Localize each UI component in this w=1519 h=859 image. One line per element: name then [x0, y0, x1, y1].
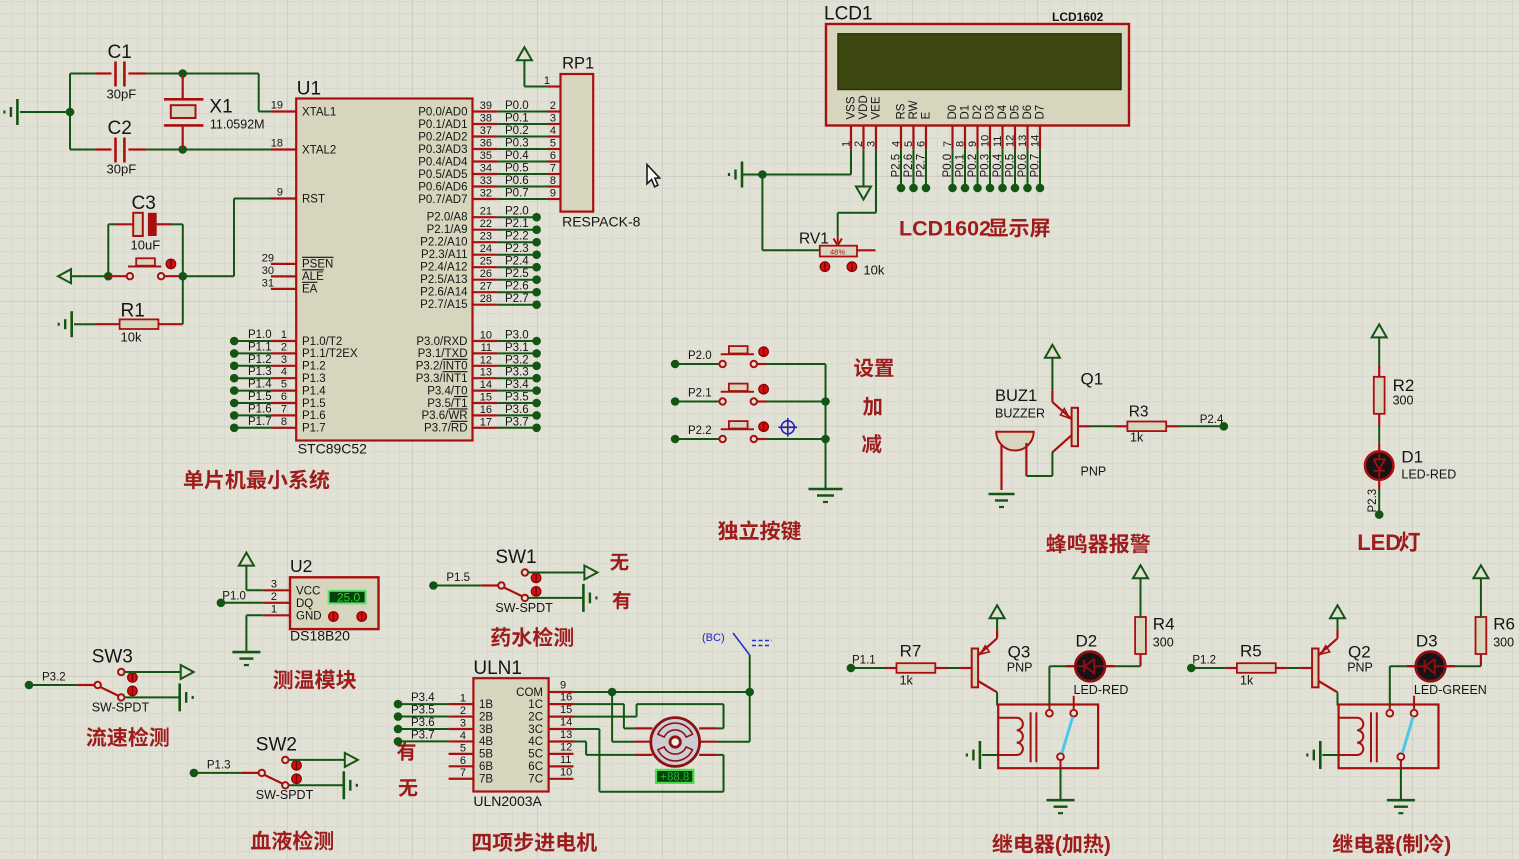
svg-text:C3: C3	[132, 193, 156, 214]
wire P1.0	[234, 329, 271, 341]
svg-text:D3: D3	[1416, 632, 1438, 651]
wire P1.5	[234, 391, 271, 403]
pin stub P3.4 (pin 14)	[473, 379, 498, 391]
svg-text:P1.3: P1.3	[248, 366, 272, 378]
wire P1.3	[234, 366, 271, 378]
svg-text:P2.0/A8: P2.0/A8	[427, 212, 468, 224]
svg-text:R7: R7	[900, 642, 922, 661]
svg-text:38: 38	[480, 113, 492, 125]
svg-text:6: 6	[281, 391, 287, 403]
node P3.4	[394, 700, 403, 709]
U1 left pin names	[302, 106, 358, 434]
svg-text:P1.4: P1.4	[302, 385, 326, 397]
switch SW3 SW-SPDT	[92, 647, 150, 715]
svg-text:D7: D7	[1035, 105, 1047, 120]
pin stub ULN 2B	[449, 705, 474, 717]
svg-text:16: 16	[480, 404, 492, 416]
pin stub P1.2 (pin 3)	[271, 354, 296, 366]
svg-text:4: 4	[281, 366, 287, 378]
svg-text:P3.6: P3.6	[505, 404, 529, 416]
node P3.5	[532, 399, 541, 408]
pin stub P3.3 (pin 13)	[473, 367, 498, 379]
svg-text:D6: D6	[1022, 105, 1034, 120]
svg-text:17: 17	[480, 416, 492, 428]
resistor R1 10k	[95, 301, 183, 345]
wire P2.1 to button	[675, 388, 722, 402]
node reset-right junction	[179, 272, 188, 281]
pin stub P1.3 (pin 4)	[271, 366, 296, 378]
pin stub P3.5 (pin 15)	[473, 392, 498, 404]
label liquid detect	[491, 627, 573, 647]
svg-text:10: 10	[560, 766, 572, 778]
svg-text:P1.0: P1.0	[222, 591, 246, 603]
wire COM up to annotation	[749, 655, 751, 692]
node P3.3	[532, 374, 541, 383]
annotation blue (BC)	[702, 632, 772, 655]
node P2.4	[1220, 422, 1229, 431]
svg-text:SW1: SW1	[495, 547, 536, 568]
svg-text:R1: R1	[121, 301, 145, 322]
pin stub ULN 1B	[449, 693, 474, 705]
svg-text:P2.0: P2.0	[505, 206, 529, 218]
ground (relay coil cool)	[1307, 741, 1338, 769]
svg-text:6B: 6B	[479, 761, 493, 773]
svg-text:32: 32	[480, 188, 492, 200]
svg-text:P2.4: P2.4	[505, 256, 529, 268]
svg-text:P2.4/A12: P2.4/A12	[420, 262, 467, 274]
resistor R5 1k	[1225, 642, 1287, 688]
svg-text:(BC): (BC)	[702, 632, 725, 644]
svg-text:2: 2	[271, 591, 277, 603]
svg-text:BUZ1: BUZ1	[995, 387, 1037, 405]
wire U2 DQ (P1.0)	[221, 591, 263, 603]
node rail P2.2	[821, 435, 830, 444]
wire P3.5	[398, 705, 449, 717]
svg-text:1k: 1k	[900, 674, 914, 688]
svg-text:P3.4: P3.4	[411, 692, 435, 704]
svg-text:U2: U2	[290, 556, 312, 576]
pin stub P2.4 (pin 25)	[473, 256, 498, 268]
pin stub P1.5 (pin 6)	[271, 391, 296, 403]
svg-text:VSS: VSS	[846, 96, 858, 119]
svg-text:1: 1	[281, 329, 287, 341]
svg-text:PNP: PNP	[1347, 660, 1373, 674]
svg-text:8: 8	[955, 141, 967, 147]
pin stub P2.1 (pin 22)	[473, 218, 498, 230]
svg-text:RS: RS	[896, 103, 908, 119]
svg-text:300: 300	[1493, 635, 1514, 649]
power terminal (Q2)	[1330, 605, 1345, 630]
wire P3.5	[497, 392, 536, 404]
svg-text:RESPACK-8: RESPACK-8	[562, 214, 641, 230]
relay coil+contacts (heat)	[998, 696, 1098, 768]
LED D1 LED-RED	[1365, 448, 1456, 482]
svg-text:P1.7: P1.7	[302, 423, 326, 435]
wire P1.5 to SW1	[433, 572, 498, 586]
svg-text:2: 2	[281, 341, 287, 353]
svg-text:PSEN: PSEN	[302, 259, 333, 271]
svg-text:RST: RST	[302, 193, 325, 205]
svg-text:7C: 7C	[528, 774, 543, 786]
temperature sensor U2 DS18B20	[263, 556, 378, 644]
svg-text:P3.4/T0: P3.4/T0	[427, 385, 467, 397]
label buzzer alarm	[1046, 534, 1150, 554]
pin stub RP1 pin 6	[548, 150, 561, 162]
pin stub RP1 pin 3	[548, 113, 561, 125]
node P2.0	[532, 213, 541, 222]
svg-text:P3.6: P3.6	[411, 717, 435, 729]
svg-text:36: 36	[480, 138, 492, 150]
wire C2 to XTAL2 rail	[146, 149, 271, 151]
svg-text:10: 10	[980, 135, 992, 147]
node P3.2	[25, 681, 34, 690]
wire P1.1	[234, 341, 271, 353]
pin stub ULN 4B	[449, 730, 474, 742]
wire Q1 base to R3	[1078, 425, 1127, 427]
svg-text:XTAL1: XTAL1	[302, 106, 336, 118]
svg-text:6: 6	[916, 141, 928, 147]
svg-text:SW-SPDT: SW-SPDT	[256, 788, 314, 802]
svg-text:P1.1: P1.1	[852, 655, 876, 667]
svg-text:P1.2: P1.2	[248, 354, 272, 366]
svg-text:7: 7	[550, 163, 556, 175]
wire P3.1	[497, 342, 536, 354]
capacitor C2	[95, 118, 146, 177]
wire P1.3 to SW2	[194, 759, 259, 773]
svg-text:SW-SPDT: SW-SPDT	[495, 601, 553, 615]
svg-text:5: 5	[460, 742, 466, 754]
pin stub RP1 pin 5	[548, 138, 561, 150]
wire COM to motor right-middle	[717, 692, 750, 742]
wire P2.4	[497, 256, 536, 268]
svg-text:D5: D5	[1010, 105, 1022, 120]
label flow detect	[87, 727, 169, 747]
svg-text:P2.6: P2.6	[505, 281, 529, 293]
svg-text:300: 300	[1153, 635, 1174, 649]
wire P0.0	[497, 100, 548, 112]
label independent keys	[718, 520, 801, 540]
wire SW1 NC to terminal	[528, 572, 584, 574]
svg-text:5C: 5C	[528, 749, 543, 761]
cursor marker (blue crosshair)	[779, 418, 798, 437]
node osc-gnd junction	[66, 108, 75, 117]
wire U2 VCC	[246, 589, 263, 591]
wire P3.6	[398, 717, 449, 729]
LED D3 LED-GREEN	[1406, 632, 1486, 698]
label blood detect	[251, 830, 333, 850]
wire key common rail	[825, 364, 827, 489]
svg-text:1: 1	[544, 75, 550, 87]
wire R2 to D1	[1378, 414, 1380, 453]
svg-text:16: 16	[560, 692, 572, 704]
svg-text:26: 26	[480, 268, 492, 280]
wire SW2 NC to terminal	[289, 759, 345, 761]
wire D2 to R4	[1104, 654, 1141, 666]
svg-text:13: 13	[1017, 135, 1029, 147]
svg-text:2C: 2C	[528, 711, 543, 723]
wire 2C to motor right-top	[574, 704, 724, 728]
resistor R3 1k	[1127, 404, 1166, 445]
pin stub 29	[262, 253, 296, 265]
svg-text:P1.2: P1.2	[302, 361, 326, 373]
svg-text:Q3: Q3	[1008, 643, 1031, 662]
ground (SW2 bottom)	[344, 771, 357, 799]
node P2.3	[1375, 510, 1384, 519]
pin stub P0.3 (pin 36)	[473, 138, 498, 150]
svg-text:27: 27	[480, 281, 492, 293]
wire LCD VSS to ground	[762, 149, 851, 174]
svg-text:P1.3: P1.3	[207, 759, 231, 771]
svg-text:4C: 4C	[528, 736, 543, 748]
svg-text:7: 7	[281, 403, 287, 415]
svg-text:C1: C1	[108, 42, 132, 63]
pin stub P1.4 (pin 5)	[271, 379, 296, 391]
LCD LCD1 body	[824, 4, 1129, 126]
label none (SW1)	[610, 554, 628, 571]
svg-text:24: 24	[480, 243, 492, 255]
wire osc left rail	[70, 74, 95, 150]
svg-text:1: 1	[460, 693, 466, 705]
wire P3.2	[497, 354, 536, 366]
svg-text:P1.6: P1.6	[302, 410, 326, 422]
svg-text:VDD: VDD	[858, 95, 870, 119]
svg-text:LED-GREEN: LED-GREEN	[1414, 683, 1487, 697]
node P1.2	[1187, 664, 1196, 673]
node P1.3	[190, 769, 199, 778]
svg-text:7: 7	[942, 141, 954, 147]
terminal (reset row left)	[58, 269, 108, 283]
svg-text:): )	[1444, 834, 1451, 857]
resistor R7 1k	[885, 642, 947, 688]
power terminal (Q1)	[1045, 345, 1060, 391]
svg-text:29: 29	[262, 253, 274, 265]
svg-text:14: 14	[480, 379, 492, 391]
relay coil+contacts (cool)	[1339, 696, 1439, 768]
svg-text:P2.5/A13: P2.5/A13	[420, 274, 467, 286]
wire P2.7	[497, 293, 536, 305]
pin stub P1.6 (pin 7)	[271, 403, 296, 415]
svg-text:EA: EA	[302, 284, 318, 296]
label relay cool	[1333, 834, 1452, 857]
node P1.1	[230, 349, 239, 358]
svg-text:D4: D4	[997, 104, 1009, 119]
label none (ULN)	[399, 779, 418, 797]
pin stub P0.5 (pin 34)	[473, 163, 498, 175]
node P2.4	[532, 263, 541, 272]
ground (LCD VSS)	[729, 162, 762, 188]
wire relay common to ground (cool)	[1400, 768, 1402, 800]
svg-text:VEE: VEE	[871, 96, 883, 119]
wire RP1 pin1	[524, 75, 550, 87]
power terminal (Q3)	[990, 605, 1005, 630]
svg-text:D2: D2	[1076, 632, 1098, 651]
svg-text:18: 18	[271, 138, 283, 150]
svg-text:7B: 7B	[479, 774, 493, 786]
power terminal (R4)	[1133, 565, 1148, 617]
wire button 1 to rail	[757, 363, 826, 365]
node P2.1	[671, 397, 680, 406]
pin stub ULN 3B	[449, 717, 474, 729]
wire P1.6	[234, 403, 271, 415]
wire Q2 collector to relay	[1337, 692, 1339, 705]
wire P3.6	[497, 404, 536, 416]
svg-text:P1.4: P1.4	[248, 379, 272, 391]
svg-text:RW: RW	[908, 100, 920, 119]
svg-text:D1: D1	[960, 105, 972, 120]
pin stub P1.0 (pin 1)	[271, 329, 296, 341]
wire P0.6	[497, 175, 548, 187]
node P1.7	[230, 424, 239, 433]
svg-text:(: (	[1395, 834, 1402, 857]
node X1 bottom junction	[178, 145, 187, 154]
svg-text:11: 11	[481, 342, 492, 354]
node P2.2	[532, 238, 541, 247]
svg-text:D1: D1	[1401, 448, 1423, 467]
svg-text:4: 4	[891, 141, 903, 147]
svg-text:P3.2: P3.2	[505, 354, 529, 366]
wire P0.4	[497, 150, 548, 162]
svg-text:R5: R5	[1240, 642, 1262, 661]
LCD net labels	[891, 153, 1042, 177]
svg-text:3C: 3C	[528, 724, 543, 736]
label stepper motor	[473, 832, 597, 852]
pin stub ULN 6B	[449, 755, 474, 767]
svg-text:P2.3/A11: P2.3/A11	[421, 249, 467, 261]
svg-text:4B: 4B	[479, 736, 493, 748]
power terminal (R6)	[1473, 565, 1488, 617]
wire P3.7	[497, 416, 536, 428]
svg-text:7: 7	[460, 767, 466, 779]
label plus	[863, 397, 882, 416]
svg-text:P2.3: P2.3	[505, 243, 529, 255]
pushbutton P2.0	[719, 346, 768, 367]
label set	[854, 358, 893, 377]
pin stub P0.6 (pin 33)	[473, 175, 498, 187]
node reset-left junction	[104, 272, 113, 281]
IC ULN1 ULN2003A body	[473, 658, 548, 809]
pin stub P3.2 (pin 12)	[473, 354, 498, 366]
pin stub ULN pin 12	[549, 741, 574, 754]
node P2.6	[532, 288, 541, 297]
svg-text:D0: D0	[947, 105, 959, 120]
svg-text:P2.1: P2.1	[505, 218, 529, 230]
svg-text:31: 31	[262, 278, 274, 290]
svg-text:10k: 10k	[121, 330, 142, 345]
transistor Q1 PNP	[1052, 370, 1106, 479]
svg-text:P0.0/AD0: P0.0/AD0	[418, 106, 467, 118]
wire P1.7	[234, 416, 271, 428]
svg-text:11: 11	[560, 754, 571, 766]
svg-text:PNP: PNP	[1081, 465, 1107, 479]
svg-text:LED: LED	[1357, 530, 1401, 555]
LED D2 LED-RED	[1066, 632, 1128, 698]
svg-text:COM: COM	[516, 687, 543, 699]
U1 right pin names	[416, 106, 468, 434]
svg-text:P0.1: P0.1	[505, 113, 529, 125]
pin stub ULN pin 9	[549, 680, 574, 693]
wire P0.1	[497, 113, 548, 125]
node rail P2.1	[821, 397, 830, 406]
ground (U2)	[232, 652, 260, 665]
svg-text:ALE: ALE	[302, 271, 324, 283]
label minimal system	[184, 470, 329, 490]
pin stub ULN pin 13	[549, 729, 574, 742]
svg-text:10uF: 10uF	[131, 238, 161, 253]
node P3.2	[532, 362, 541, 371]
wire P2.1	[497, 218, 536, 230]
svg-text:300: 300	[1393, 394, 1414, 408]
wire P3.2 to SW3	[29, 672, 95, 686]
transistor Q2 PNP	[1312, 630, 1373, 692]
svg-text:LCD1602: LCD1602	[1052, 10, 1104, 24]
node P3.5	[394, 712, 403, 721]
svg-text:P0.3: P0.3	[505, 138, 529, 150]
node P1.1	[847, 664, 856, 673]
svg-text:28: 28	[480, 293, 492, 305]
svg-text:P2.2: P2.2	[505, 231, 529, 243]
wire P3.0	[497, 330, 536, 342]
wire P0.2	[497, 125, 548, 137]
node P1.5	[230, 399, 239, 408]
svg-text:R2: R2	[1393, 376, 1415, 395]
svg-text:U1: U1	[297, 79, 321, 100]
wire XTAL1 net	[183, 74, 271, 112]
wire P2.6	[497, 281, 536, 293]
svg-text:P1.1/T2EX: P1.1/T2EX	[302, 348, 358, 360]
IC U1 STC89C52 body	[296, 79, 472, 457]
svg-text:19: 19	[271, 100, 283, 112]
pushbutton (reset)	[108, 258, 183, 279]
pin stub 31	[262, 278, 296, 290]
stepper angle display	[656, 770, 693, 784]
wire gnd to RV1	[762, 175, 819, 251]
ground (left of R1)	[59, 311, 95, 337]
wire P2.3	[497, 243, 536, 255]
svg-text:3: 3	[281, 354, 287, 366]
svg-text:STC89C52: STC89C52	[298, 441, 367, 457]
svg-text:2: 2	[550, 100, 556, 112]
svg-text:5B: 5B	[479, 749, 493, 761]
svg-text:DS18B20: DS18B20	[290, 628, 350, 644]
svg-text:P2.3: P2.3	[1367, 489, 1379, 513]
svg-text:9: 9	[550, 188, 556, 200]
svg-text:Q2: Q2	[1348, 643, 1371, 662]
svg-text:P0.7: P0.7	[505, 188, 529, 200]
wire P2.0	[497, 206, 536, 218]
svg-text:P2.2: P2.2	[688, 425, 712, 437]
resistor R4 300	[1135, 615, 1174, 655]
node X1 top junction	[178, 69, 187, 78]
svg-text:DQ: DQ	[296, 598, 313, 610]
terminal (SW1 top)	[584, 566, 597, 580]
svg-text:P3.7: P3.7	[505, 416, 529, 428]
wire SW3 NO to ground	[125, 696, 180, 698]
svg-text:SW2: SW2	[256, 734, 297, 755]
wire 3C to motor right-bottom	[574, 729, 724, 792]
pin stub P0.2 (pin 37)	[473, 125, 498, 137]
wire P3.7	[398, 729, 449, 741]
svg-text:11: 11	[992, 136, 1004, 147]
pin stub P2.0 (pin 21)	[473, 206, 498, 218]
svg-text:P2.5: P2.5	[505, 268, 529, 280]
node P2.5	[532, 275, 541, 284]
svg-text:GND: GND	[296, 611, 322, 623]
wire 1C to motor left-top	[574, 704, 635, 728]
wire C3 right lead	[157, 224, 183, 276]
svg-text:5: 5	[281, 379, 287, 391]
svg-text:25: 25	[480, 256, 492, 268]
svg-text:P0.5/AD5: P0.5/AD5	[418, 169, 467, 181]
